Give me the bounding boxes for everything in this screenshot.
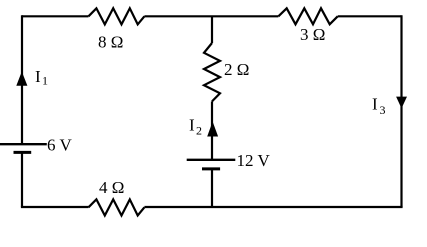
svg-text:3: 3 bbox=[380, 103, 386, 117]
svg-text:4 Ω: 4 Ω bbox=[99, 178, 124, 197]
svg-text:2: 2 bbox=[196, 124, 202, 138]
svg-text:I: I bbox=[372, 95, 378, 114]
svg-text:1: 1 bbox=[42, 74, 48, 88]
svg-text:8 Ω: 8 Ω bbox=[98, 32, 123, 51]
svg-text:6 V: 6 V bbox=[47, 136, 72, 155]
svg-text:I: I bbox=[189, 116, 195, 135]
svg-text:I: I bbox=[35, 67, 41, 86]
svg-text:3 Ω: 3 Ω bbox=[300, 25, 325, 44]
svg-text:2 Ω: 2 Ω bbox=[224, 60, 249, 79]
svg-text:12 V: 12 V bbox=[237, 151, 271, 170]
